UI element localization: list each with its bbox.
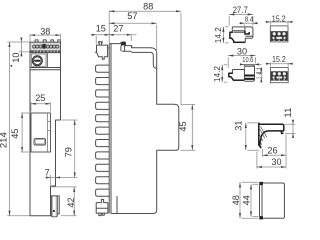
terminal screws row	[33, 45, 59, 48]
svg-text:88: 88	[143, 1, 153, 12]
block left edge	[259, 185, 261, 216]
svg-text:44: 44	[241, 195, 252, 205]
svg-text:15.2: 15.2	[272, 15, 286, 24]
detail 3 outline	[270, 26, 288, 42]
svg-text:27: 27	[113, 24, 123, 35]
side view body outline	[109, 42, 179, 213]
inspection window block	[30, 53, 47, 68]
detail 4 outline	[270, 68, 288, 83]
svg-text:45: 45	[10, 129, 21, 139]
DIN clip top knob	[98, 42, 102, 45]
label window inner edge	[48, 113, 51, 152]
dimension 88	[109, 10, 181, 104]
side view rear wall	[109, 44, 111, 214]
body horizontal lines	[30, 68, 61, 70]
svg-text:4.1: 4.1	[256, 67, 263, 75]
dimension 8.4	[239, 23, 258, 28]
svg-text:48: 48	[231, 195, 242, 205]
dimension 10.6	[240, 64, 262, 69]
detail 4 wire slots	[273, 77, 275, 79]
detail 1 clamp bold lip	[233, 41, 245, 43]
svg-text:27.7: 27.7	[233, 5, 248, 16]
front view top terminal bumps	[35, 40, 60, 42]
svg-text:10: 10	[11, 53, 22, 63]
bottom seam line	[116, 196, 118, 214]
detail 3 wire slots	[273, 37, 275, 39]
top lever hook	[121, 42, 125, 45]
detail 2 outline	[232, 65, 254, 82]
svg-text:14.2: 14.2	[213, 65, 222, 82]
svg-text:14.2: 14.2	[214, 27, 223, 44]
DIN foot slider	[51, 196, 57, 217]
svg-text:79: 79	[63, 147, 74, 157]
block bottom tab	[259, 216, 263, 219]
front view body outline	[30, 42, 61, 216]
dimension 4.1	[256, 69, 263, 81]
svg-text:15: 15	[96, 24, 106, 35]
dimension 10	[19, 38, 30, 56]
lever detail lines	[121, 46, 132, 52]
DIN clip bottom	[96, 199, 108, 215]
svg-text:10.6: 10.6	[242, 57, 253, 64]
dimension 38	[30, 34, 61, 41]
svg-text:30: 30	[271, 157, 281, 168]
dimension 79	[62, 119, 78, 121]
svg-text:15.2: 15.2	[272, 55, 286, 64]
detail 1 clamp bold left	[230, 32, 234, 42]
detail 2 dark bars	[245, 75, 255, 77]
dimension 45 left	[21, 113, 30, 152]
detail 3 dark body	[271, 31, 288, 41]
svg-text:30: 30	[237, 46, 247, 57]
svg-text:38: 38	[40, 26, 50, 37]
svg-text:45: 45	[178, 121, 189, 131]
block top tab	[259, 182, 263, 185]
bracket hatch	[259, 127, 267, 145]
dimension 14.2 detail1	[225, 27, 229, 43]
svg-text:8.4: 8.4	[245, 17, 254, 24]
label slot	[34, 139, 46, 145]
dimension 42	[52, 187, 77, 216]
dimension 15.2 detail3	[267, 21, 291, 25]
detail 2 bold lip	[233, 79, 245, 81]
dimension 26	[262, 135, 286, 157]
dimension 214	[7, 42, 29, 216]
dimension 25	[31, 102, 51, 111]
dimension 44	[252, 184, 258, 216]
bracket arm	[259, 124, 284, 145]
terminal dark strip	[30, 50, 60, 52]
dimension 15 and 27	[91, 35, 137, 45]
block outline	[262, 183, 284, 218]
svg-text:26: 26	[267, 146, 277, 157]
svg-text:7: 7	[45, 167, 50, 178]
svg-text:42: 42	[66, 197, 77, 207]
label window	[31, 113, 51, 152]
heatsink fins	[96, 65, 110, 196]
cover seam	[131, 52, 156, 68]
detail 4 dark body	[271, 71, 288, 80]
dimension 57	[156, 25, 158, 53]
svg-text:31: 31	[233, 121, 244, 131]
detail 2 clamp bold left	[229, 73, 233, 80]
DIN clip top body	[95, 45, 109, 59]
dimension 48	[242, 182, 259, 218]
detail 4 screws	[272, 72, 286, 76]
small speck	[11, 65, 13, 67]
detail 1 clamp bold hook	[245, 31, 249, 34]
dimension 30 bracket	[257, 152, 286, 169]
detail 1 outline	[232, 27, 253, 43]
dimension 14.2 detail2	[224, 65, 228, 82]
dimension 45 right (notch)	[181, 105, 196, 151]
bracket plate	[259, 123, 261, 148]
terminal dark square	[42, 44, 46, 49]
DIN foot block	[51, 196, 60, 214]
svg-text:25: 25	[35, 93, 45, 104]
dimension 30 detail2	[228, 57, 255, 68]
dimension 15.2 detail4	[267, 63, 291, 67]
dimension 11	[285, 120, 295, 138]
slider pin	[53, 210, 55, 212]
svg-text:11: 11	[283, 107, 294, 117]
terminal strip block	[30, 42, 61, 53]
detail 1 inner lines	[233, 27, 253, 36]
svg-text:57: 57	[127, 11, 137, 22]
screw slot	[34, 60, 40, 62]
dimension 27.7	[229, 16, 253, 26]
dimension 31	[247, 123, 258, 150]
screw circle	[32, 56, 42, 66]
dimension 7	[45, 175, 78, 185]
detail 3 screws	[272, 32, 286, 36]
svg-text:214: 214	[0, 132, 9, 148]
detail 2 inner lines	[244, 66, 254, 80]
